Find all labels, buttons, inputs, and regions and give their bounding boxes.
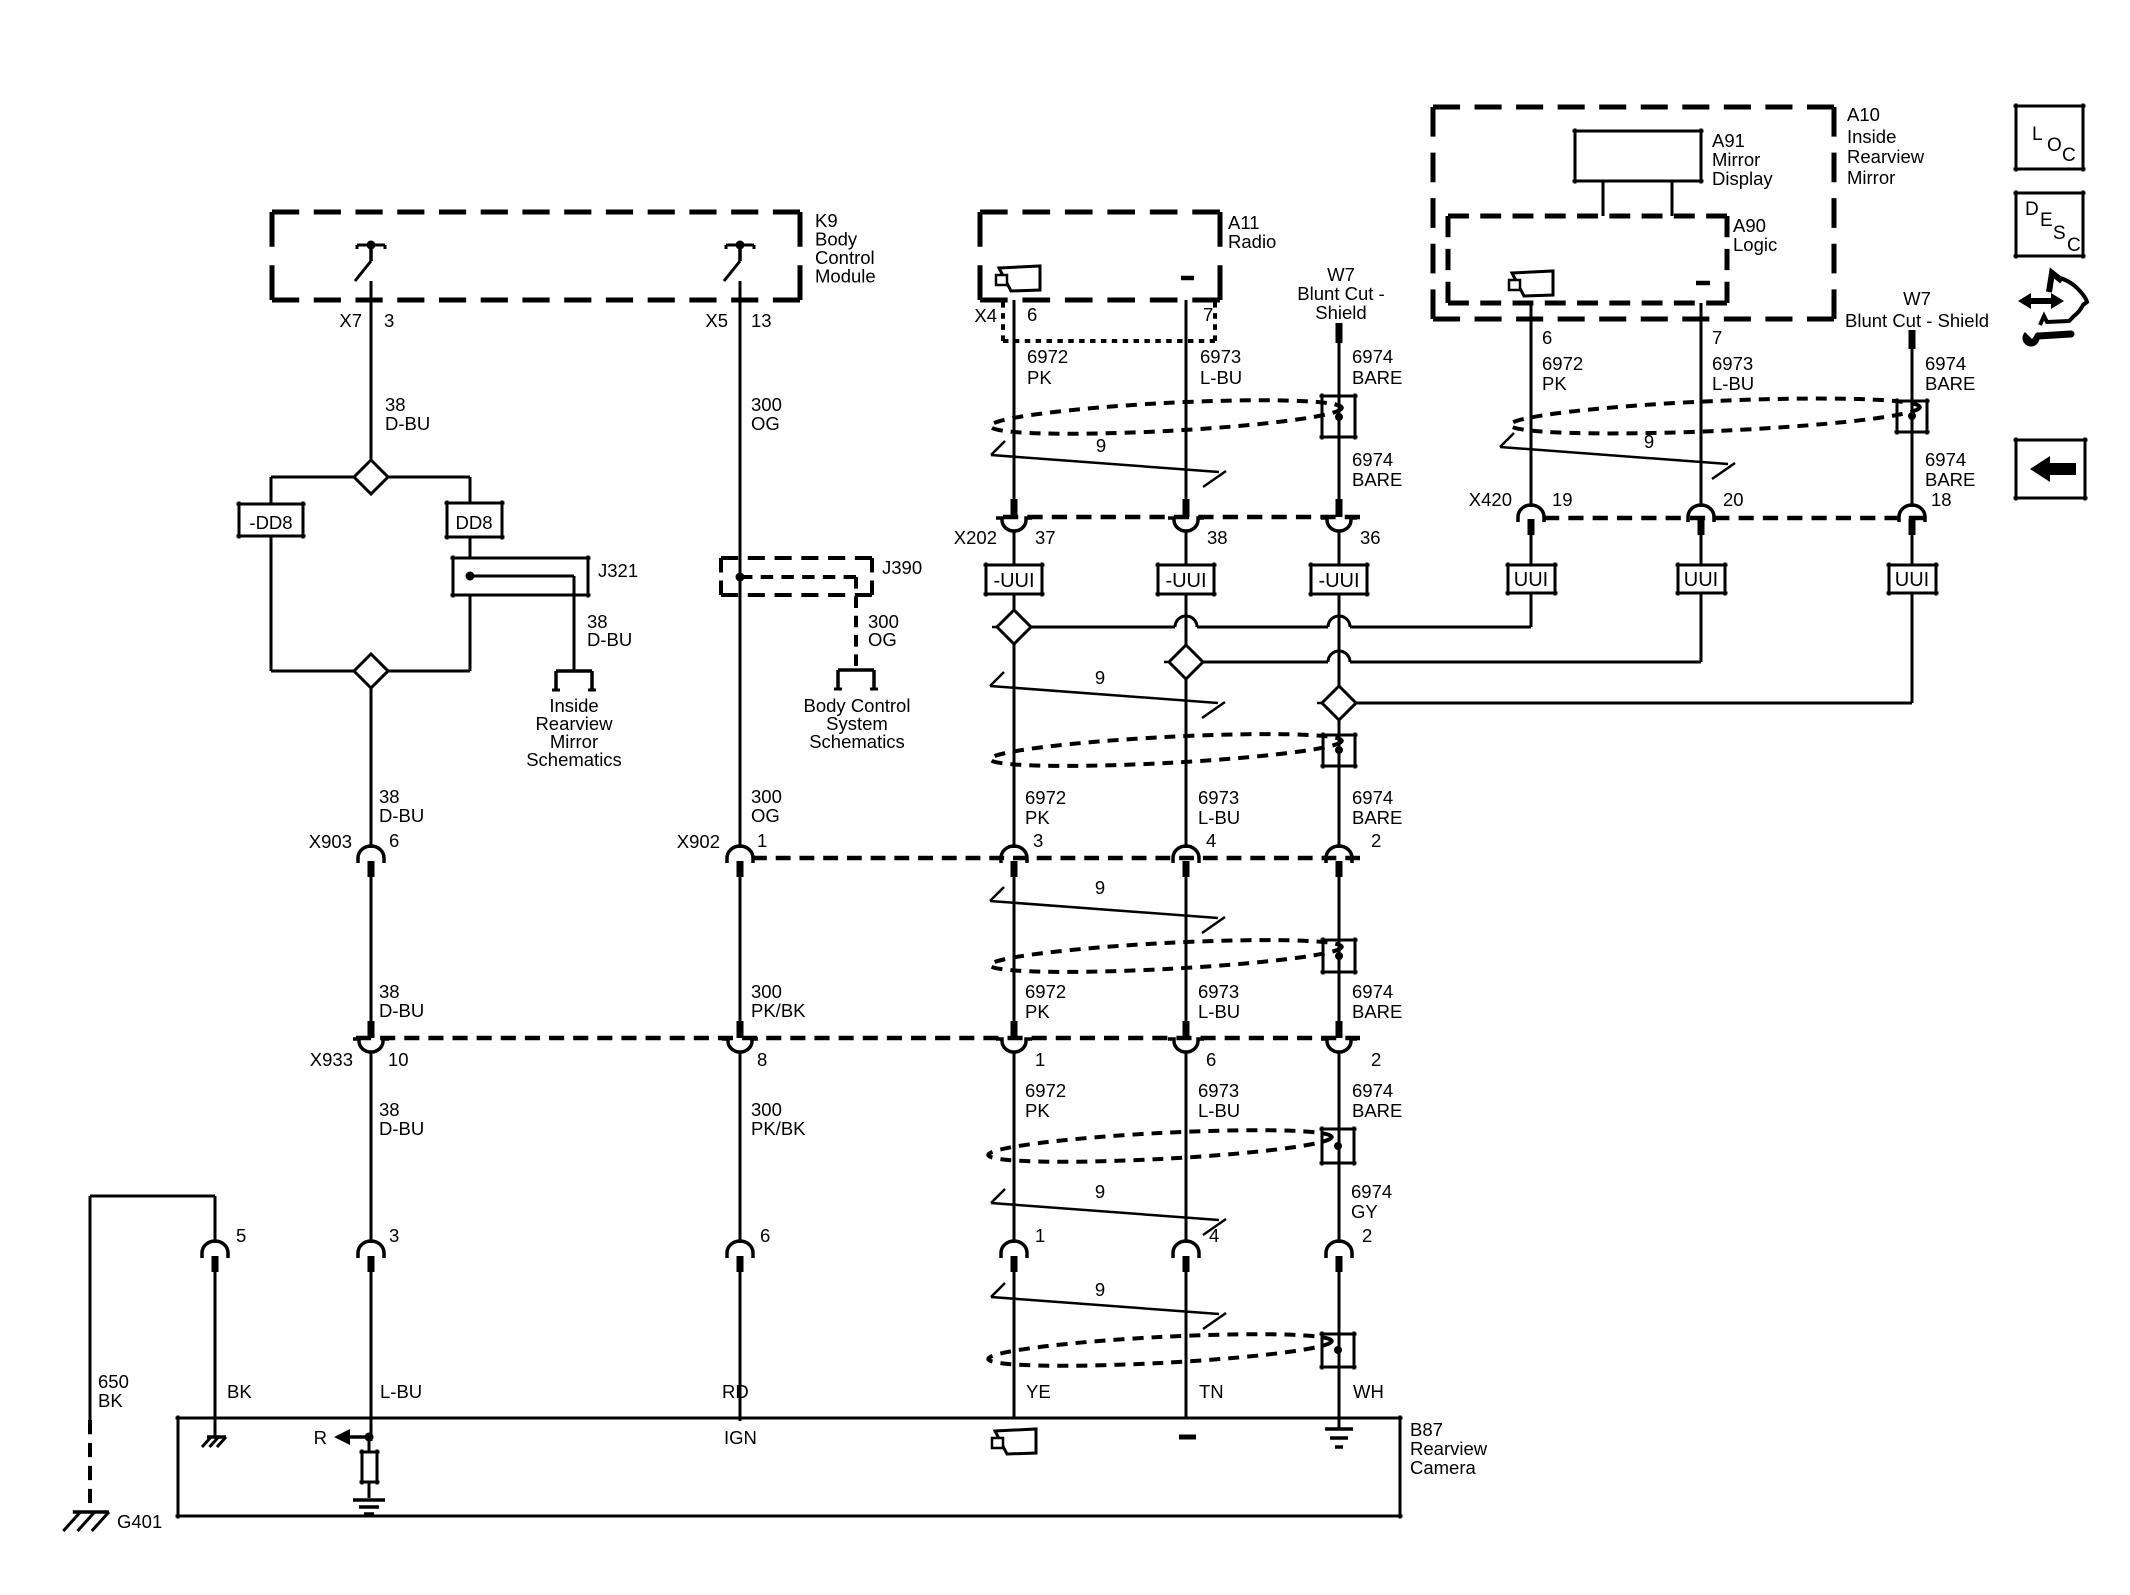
- svg-text:20: 20: [1723, 489, 1744, 510]
- svg-text:9: 9: [1644, 431, 1654, 452]
- svg-text:2: 2: [1362, 1225, 1372, 1246]
- svg-text:1: 1: [1035, 1225, 1045, 1246]
- svg-text:IGN: IGN: [724, 1427, 757, 1448]
- svg-text:37: 37: [1035, 527, 1056, 548]
- svg-text:6974: 6974: [1352, 1080, 1393, 1101]
- svg-text:L-BU: L-BU: [1198, 1100, 1240, 1121]
- svg-text:9: 9: [1096, 435, 1106, 456]
- svg-text:Display: Display: [1712, 168, 1773, 189]
- svg-text:L-BU: L-BU: [1198, 1001, 1240, 1022]
- svg-text:7: 7: [1203, 304, 1213, 325]
- svg-text:Camera: Camera: [1410, 1457, 1477, 1478]
- svg-text:650: 650: [98, 1371, 129, 1392]
- svg-text:C: C: [2067, 235, 2081, 256]
- svg-text:PK/BK: PK/BK: [751, 1000, 806, 1021]
- svg-text:YE: YE: [1026, 1381, 1051, 1402]
- svg-text:X933: X933: [310, 1049, 353, 1070]
- svg-text:WH: WH: [1353, 1381, 1384, 1402]
- svg-text:A11: A11: [1228, 212, 1260, 233]
- svg-text:7: 7: [1712, 327, 1722, 348]
- svg-text:6973: 6973: [1712, 353, 1753, 374]
- svg-text:W7: W7: [1903, 288, 1931, 309]
- svg-text:PK: PK: [1025, 1001, 1050, 1022]
- svg-text:R: R: [314, 1427, 327, 1448]
- svg-text:D-BU: D-BU: [385, 413, 430, 434]
- svg-text:GY: GY: [1351, 1201, 1378, 1222]
- svg-text:38: 38: [385, 394, 406, 415]
- svg-text:Blunt Cut - Shield: Blunt Cut - Shield: [1845, 310, 1989, 331]
- svg-text:X7: X7: [339, 310, 362, 331]
- svg-text:300: 300: [751, 394, 782, 415]
- svg-text:8: 8: [757, 1049, 767, 1070]
- svg-text:X903: X903: [309, 831, 352, 852]
- svg-text:1: 1: [1035, 1049, 1045, 1070]
- svg-text:6972: 6972: [1542, 353, 1583, 374]
- svg-text:TN: TN: [1199, 1381, 1224, 1402]
- svg-text:1: 1: [757, 830, 767, 851]
- svg-text:B87: B87: [1410, 1419, 1443, 1440]
- svg-text:13: 13: [751, 310, 772, 331]
- svg-text:D-BU: D-BU: [379, 1118, 424, 1139]
- svg-text:Radio: Radio: [1228, 231, 1276, 252]
- svg-text:L: L: [2032, 124, 2043, 145]
- svg-text:J390: J390: [882, 557, 922, 578]
- svg-text:BARE: BARE: [1352, 807, 1402, 828]
- svg-text:2: 2: [1371, 830, 1381, 851]
- svg-text:-UUI: -UUI: [1165, 570, 1206, 592]
- svg-text:X902: X902: [677, 831, 720, 852]
- svg-text:6974: 6974: [1352, 787, 1393, 808]
- svg-text:Inside: Inside: [1847, 126, 1896, 147]
- svg-text:UUI: UUI: [1895, 569, 1929, 591]
- svg-text:6972: 6972: [1025, 981, 1066, 1002]
- svg-text:38: 38: [379, 1099, 400, 1120]
- svg-text:UUI: UUI: [1514, 569, 1548, 591]
- svg-text:S: S: [2053, 223, 2066, 244]
- svg-text:10: 10: [388, 1049, 409, 1070]
- svg-text:9: 9: [1095, 877, 1105, 898]
- svg-text:W7: W7: [1327, 264, 1355, 285]
- svg-text:-UUI: -UUI: [993, 570, 1034, 592]
- svg-text:-UUI: -UUI: [1318, 570, 1359, 592]
- svg-text:6972: 6972: [1025, 1080, 1066, 1101]
- svg-text:L-BU: L-BU: [1200, 367, 1242, 388]
- svg-text:A90: A90: [1733, 215, 1766, 236]
- svg-text:Schematics: Schematics: [526, 749, 622, 770]
- svg-text:36: 36: [1360, 527, 1381, 548]
- svg-text:6974: 6974: [1925, 353, 1966, 374]
- svg-text:4: 4: [1206, 830, 1216, 851]
- svg-text:L-BU: L-BU: [1198, 807, 1240, 828]
- svg-text:BARE: BARE: [1925, 373, 1975, 394]
- svg-text:BARE: BARE: [1352, 367, 1402, 388]
- svg-text:3: 3: [1033, 830, 1043, 851]
- svg-text:PK: PK: [1025, 1100, 1050, 1121]
- svg-text:Mirror: Mirror: [1847, 167, 1895, 188]
- svg-text:PK/BK: PK/BK: [751, 1118, 806, 1139]
- svg-text:Rearview: Rearview: [1847, 146, 1925, 167]
- svg-text:6973: 6973: [1198, 1080, 1239, 1101]
- svg-text:-DD8: -DD8: [249, 512, 292, 533]
- svg-text:BK: BK: [98, 1390, 123, 1411]
- svg-text:5: 5: [236, 1225, 246, 1246]
- svg-text:6973: 6973: [1200, 346, 1241, 367]
- svg-text:300: 300: [751, 786, 782, 807]
- svg-text:3: 3: [384, 310, 394, 331]
- svg-text:X420: X420: [1469, 489, 1512, 510]
- svg-text:BARE: BARE: [1352, 1001, 1402, 1022]
- svg-text:6974: 6974: [1352, 346, 1393, 367]
- svg-text:300: 300: [751, 1099, 782, 1120]
- svg-text:Mirror: Mirror: [1712, 149, 1760, 170]
- svg-text:Schematics: Schematics: [809, 731, 905, 752]
- svg-text:L-BU: L-BU: [1712, 373, 1754, 394]
- svg-text:Logic: Logic: [1733, 234, 1777, 255]
- svg-text:A10: A10: [1847, 104, 1880, 125]
- svg-text:Module: Module: [815, 266, 876, 287]
- svg-text:38: 38: [379, 786, 400, 807]
- svg-text:6: 6: [760, 1225, 770, 1246]
- svg-text:6974: 6974: [1352, 981, 1393, 1002]
- svg-text:X4: X4: [974, 305, 997, 326]
- svg-text:2: 2: [1371, 1049, 1381, 1070]
- svg-text:G401: G401: [117, 1511, 162, 1532]
- svg-text:6974: 6974: [1352, 449, 1393, 470]
- svg-text:9: 9: [1095, 1279, 1105, 1300]
- svg-text:300: 300: [751, 981, 782, 1002]
- svg-text:9: 9: [1095, 1181, 1105, 1202]
- svg-text:6973: 6973: [1198, 981, 1239, 1002]
- svg-text:6: 6: [1027, 304, 1037, 325]
- svg-text:6973: 6973: [1198, 787, 1239, 808]
- svg-text:J321: J321: [598, 560, 638, 581]
- svg-text:A91: A91: [1712, 130, 1745, 151]
- svg-text:BK: BK: [227, 1381, 252, 1402]
- svg-text:18: 18: [1931, 489, 1952, 510]
- svg-text:6: 6: [389, 830, 399, 851]
- svg-text:RD: RD: [722, 1381, 749, 1402]
- svg-text:6: 6: [1206, 1049, 1216, 1070]
- svg-text:C: C: [2062, 145, 2076, 166]
- svg-text:PK: PK: [1542, 373, 1567, 394]
- svg-text:UUI: UUI: [1684, 569, 1718, 591]
- svg-text:4: 4: [1209, 1225, 1219, 1246]
- svg-text:19: 19: [1552, 489, 1573, 510]
- svg-text:X5: X5: [705, 310, 728, 331]
- svg-text:E: E: [2040, 210, 2053, 231]
- svg-text:D-BU: D-BU: [379, 805, 424, 826]
- svg-text:PK: PK: [1025, 807, 1050, 828]
- svg-text:D: D: [2025, 199, 2039, 220]
- svg-text:6974: 6974: [1351, 1181, 1392, 1202]
- svg-text:Blunt Cut -: Blunt Cut -: [1297, 283, 1384, 304]
- svg-text:O: O: [2047, 135, 2062, 156]
- svg-text:38: 38: [1207, 527, 1228, 548]
- svg-text:PK: PK: [1027, 367, 1052, 388]
- svg-text:BARE: BARE: [1352, 1100, 1402, 1121]
- svg-text:9: 9: [1095, 667, 1105, 688]
- svg-text:6972: 6972: [1027, 346, 1068, 367]
- svg-text:6: 6: [1542, 327, 1552, 348]
- svg-text:DD8: DD8: [455, 512, 492, 533]
- svg-text:Shield: Shield: [1315, 302, 1366, 323]
- svg-text:6972: 6972: [1025, 787, 1066, 808]
- svg-text:3: 3: [389, 1225, 399, 1246]
- svg-text:38: 38: [379, 981, 400, 1002]
- svg-text:X202: X202: [954, 527, 997, 548]
- svg-text:D-BU: D-BU: [587, 629, 632, 650]
- svg-text:OG: OG: [868, 629, 897, 650]
- svg-text:OG: OG: [751, 805, 780, 826]
- svg-text:Rearview: Rearview: [1410, 1438, 1488, 1459]
- svg-text:OG: OG: [751, 413, 780, 434]
- svg-text:6974: 6974: [1925, 449, 1966, 470]
- svg-text:L-BU: L-BU: [380, 1381, 422, 1402]
- svg-text:BARE: BARE: [1925, 469, 1975, 490]
- svg-text:D-BU: D-BU: [379, 1000, 424, 1021]
- svg-text:BARE: BARE: [1352, 469, 1402, 490]
